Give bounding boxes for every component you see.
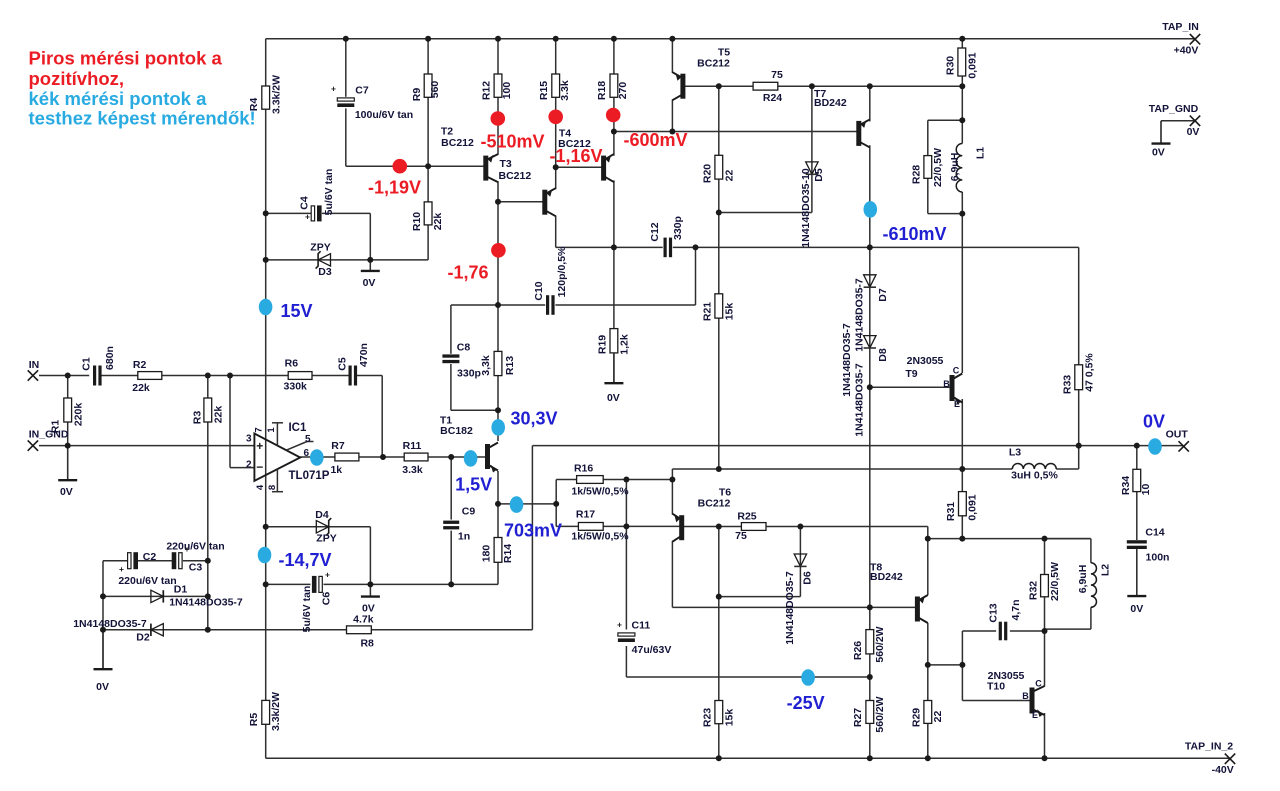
svg-text:3: 3	[246, 434, 252, 445]
svg-text:R23: R23	[702, 708, 714, 727]
svg-text:330k: 330k	[284, 381, 308, 393]
svg-text:BC182: BC182	[440, 425, 473, 437]
svg-text:R33: R33	[1062, 375, 1074, 394]
svg-text:R8: R8	[360, 638, 374, 650]
svg-text:C4: C4	[299, 196, 311, 210]
svg-text:+: +	[119, 564, 124, 574]
svg-text:C11: C11	[632, 620, 651, 632]
svg-text:703mV: 703mV	[504, 521, 562, 541]
svg-text:C14: C14	[1145, 527, 1164, 539]
svg-text:IN_GND: IN_GND	[29, 429, 69, 441]
svg-text:1N4148DO35-10: 1N4148DO35-10	[800, 168, 812, 248]
svg-text:BD242: BD242	[870, 571, 903, 583]
svg-text:D5: D5	[813, 168, 825, 182]
svg-text:-600mV: -600mV	[623, 130, 687, 150]
svg-text:TL071P: TL071P	[289, 470, 330, 482]
svg-text:4,7n: 4,7n	[1010, 599, 1022, 620]
svg-text:L2: L2	[1100, 564, 1112, 576]
svg-text:8: 8	[267, 485, 278, 490]
svg-text:0V: 0V	[96, 681, 109, 693]
svg-text:560/2W: 560/2W	[874, 626, 886, 662]
svg-text:Piros mérési pontok a: Piros mérési pontok a	[29, 48, 223, 69]
svg-text:-25V: -25V	[787, 693, 825, 713]
svg-text:270: 270	[617, 82, 629, 100]
svg-text:560/2W: 560/2W	[874, 696, 886, 732]
svg-text:0V: 0V	[607, 392, 620, 404]
svg-text:C5: C5	[337, 357, 349, 371]
svg-text:IC1: IC1	[288, 422, 307, 434]
svg-text:180: 180	[481, 545, 493, 563]
svg-text:1N4148DO35-7: 1N4148DO35-7	[854, 363, 866, 437]
svg-text:R27: R27	[852, 708, 864, 727]
svg-text:TAP_IN: TAP_IN	[1162, 21, 1199, 33]
svg-text:R21: R21	[702, 302, 714, 321]
svg-text:0V: 0V	[1152, 147, 1165, 159]
svg-text:R7: R7	[331, 440, 345, 452]
svg-text:D8: D8	[877, 348, 889, 362]
svg-text:R17: R17	[576, 508, 595, 520]
svg-text:-40V: -40V	[1212, 764, 1234, 776]
svg-text:1,5V: 1,5V	[455, 475, 492, 495]
svg-text:-14,7V: -14,7V	[278, 550, 331, 570]
svg-text:R5: R5	[248, 713, 260, 727]
svg-text:R30: R30	[945, 56, 957, 75]
svg-text:2: 2	[246, 460, 252, 471]
svg-text:−: −	[256, 460, 263, 474]
svg-text:0V: 0V	[60, 486, 73, 498]
svg-text:R28: R28	[911, 165, 923, 184]
svg-text:6,9uH: 6,9uH	[949, 153, 961, 182]
svg-text:-1,16V: -1,16V	[549, 146, 602, 166]
svg-text:6: 6	[304, 448, 310, 459]
svg-text:D6: D6	[802, 571, 814, 585]
svg-text:kék mérési pontok a: kék mérési pontok a	[29, 88, 208, 109]
svg-text:3,3k: 3,3k	[480, 355, 492, 376]
svg-text:1N4148DO35-7: 1N4148DO35-7	[73, 618, 147, 630]
svg-text:BC212: BC212	[499, 170, 532, 182]
svg-text:C: C	[1035, 679, 1042, 689]
svg-text:22k: 22k	[432, 213, 444, 231]
svg-text:22k: 22k	[132, 382, 150, 394]
svg-text:0V: 0V	[1143, 412, 1165, 432]
svg-text:1N4148DO35-7: 1N4148DO35-7	[784, 571, 796, 645]
svg-text:22: 22	[724, 170, 736, 182]
svg-text:5u/6V tan: 5u/6V tan	[323, 169, 335, 216]
svg-text:0V: 0V	[362, 603, 375, 615]
svg-text:T3: T3	[500, 158, 512, 170]
svg-text:C13: C13	[988, 603, 1000, 622]
svg-text:R18: R18	[596, 81, 608, 100]
svg-text:R24: R24	[763, 92, 782, 104]
svg-text:ZPY: ZPY	[316, 533, 336, 545]
svg-text:1,2k: 1,2k	[619, 334, 631, 355]
svg-text:-1,19V: -1,19V	[368, 178, 421, 198]
svg-text:BC212: BC212	[697, 58, 730, 70]
svg-text:L1: L1	[975, 147, 987, 159]
svg-text:100u/6V tan: 100u/6V tan	[355, 109, 413, 121]
svg-text:T10: T10	[987, 681, 1005, 693]
svg-text:T2: T2	[441, 126, 453, 138]
svg-text:1: 1	[266, 427, 277, 433]
svg-text:R10: R10	[411, 212, 423, 231]
svg-text:1N4148DO35-7: 1N4148DO35-7	[841, 323, 853, 397]
svg-text:C1: C1	[81, 357, 93, 371]
svg-text:L3: L3	[1009, 447, 1021, 459]
svg-text:3uH 0,5%: 3uH 0,5%	[1011, 470, 1058, 482]
svg-text:C12: C12	[649, 222, 661, 241]
svg-text:330p: 330p	[672, 216, 684, 240]
svg-text:6,9uH: 6,9uH	[1077, 565, 1089, 594]
svg-text:470n: 470n	[358, 343, 370, 367]
svg-text:D1: D1	[174, 584, 188, 596]
svg-text:22/0,5W: 22/0,5W	[1049, 562, 1061, 601]
svg-text:testhez képest mérendők!: testhez képest mérendők!	[29, 108, 256, 129]
svg-text:22: 22	[932, 711, 944, 723]
svg-text:C3: C3	[189, 562, 203, 574]
svg-text:220u/6V tan: 220u/6V tan	[166, 541, 224, 553]
svg-text:-1,76: -1,76	[447, 263, 488, 283]
svg-text:ZPY: ZPY	[310, 242, 330, 254]
svg-text:R11: R11	[403, 440, 422, 452]
svg-text:220k: 220k	[73, 403, 85, 427]
svg-text:7: 7	[254, 427, 265, 432]
svg-text:+: +	[305, 212, 310, 222]
svg-text:R9: R9	[411, 88, 423, 102]
svg-text:15k: 15k	[724, 709, 736, 727]
svg-text:OUT: OUT	[1166, 428, 1189, 440]
svg-text:B: B	[943, 379, 950, 389]
svg-text:T9: T9	[905, 368, 917, 380]
svg-text:+: +	[331, 84, 336, 94]
svg-text:3.3k/2W: 3.3k/2W	[270, 692, 282, 731]
svg-text:220u/6V tan: 220u/6V tan	[118, 575, 176, 587]
svg-text:BC212: BC212	[441, 137, 474, 149]
svg-text:IN: IN	[29, 359, 40, 371]
svg-text:2N3055: 2N3055	[907, 355, 944, 367]
svg-text:R13: R13	[504, 356, 516, 375]
svg-text:R34: R34	[1120, 476, 1132, 495]
svg-text:4.7k: 4.7k	[353, 614, 374, 626]
svg-text:100n: 100n	[1146, 552, 1170, 564]
svg-text:C6: C6	[321, 592, 333, 606]
svg-text:1N4148DO35-7: 1N4148DO35-7	[854, 278, 866, 352]
svg-text:330p: 330p	[457, 368, 481, 380]
svg-text:D4: D4	[315, 509, 329, 521]
svg-text:R3: R3	[192, 411, 204, 425]
svg-text:30,3V: 30,3V	[510, 409, 557, 429]
svg-text:R12: R12	[481, 81, 493, 100]
svg-text:0,091: 0,091	[967, 52, 979, 78]
svg-text:560: 560	[429, 81, 441, 99]
svg-text:47 0,5%: 47 0,5%	[1084, 353, 1096, 392]
svg-text:B: B	[1022, 691, 1029, 701]
svg-text:BC212: BC212	[698, 498, 731, 510]
svg-text:22/0,5W: 22/0,5W	[932, 148, 944, 187]
svg-text:TAP_GND: TAP_GND	[1149, 103, 1199, 115]
svg-text:100: 100	[501, 82, 513, 100]
svg-text:3.3k: 3.3k	[402, 464, 423, 476]
svg-text:22k: 22k	[213, 406, 225, 424]
svg-text:R31: R31	[945, 502, 957, 521]
svg-text:E: E	[954, 399, 960, 409]
svg-text:1k/5W/0,5%: 1k/5W/0,5%	[571, 531, 629, 543]
svg-text:R2: R2	[133, 359, 147, 371]
svg-text:R16: R16	[574, 463, 593, 475]
svg-text:R19: R19	[597, 335, 609, 354]
svg-text:R15: R15	[538, 81, 550, 100]
svg-text:+: +	[325, 570, 330, 580]
svg-text:120p/0,5%: 120p/0,5%	[556, 246, 568, 297]
svg-text:-610mV: -610mV	[882, 224, 946, 244]
svg-text:C2: C2	[143, 551, 157, 563]
svg-text:0V: 0V	[363, 277, 376, 289]
svg-text:10: 10	[1140, 484, 1152, 496]
svg-text:3.3k/2W: 3.3k/2W	[271, 75, 283, 114]
svg-text:C7: C7	[355, 85, 369, 97]
svg-text:TAP_IN_2: TAP_IN_2	[1185, 741, 1233, 753]
svg-text:1k/5W/0,5%: 1k/5W/0,5%	[571, 486, 629, 498]
svg-text:15V: 15V	[280, 301, 312, 321]
svg-text:-510mV: -510mV	[480, 132, 544, 152]
svg-text:R6: R6	[285, 358, 299, 370]
svg-text:+: +	[185, 544, 190, 554]
svg-text:3.3k: 3.3k	[559, 80, 571, 101]
svg-text:+40V: +40V	[1174, 45, 1199, 57]
svg-text:R26: R26	[852, 641, 864, 660]
svg-text:75: 75	[771, 69, 783, 81]
svg-text:0V: 0V	[1187, 126, 1200, 138]
svg-text:1n: 1n	[458, 531, 470, 543]
svg-text:+: +	[617, 620, 622, 630]
svg-text:D2: D2	[136, 632, 150, 644]
svg-text:1k: 1k	[330, 464, 342, 476]
svg-text:C8: C8	[457, 342, 471, 354]
svg-text:E: E	[1032, 710, 1038, 720]
svg-text:R14: R14	[502, 544, 514, 563]
svg-text:5u/6V tan: 5u/6V tan	[301, 586, 313, 633]
svg-text:+: +	[256, 439, 263, 453]
svg-text:680n: 680n	[104, 346, 116, 370]
svg-text:75: 75	[735, 530, 747, 542]
svg-text:R29: R29	[911, 708, 923, 727]
svg-text:BD242: BD242	[814, 97, 847, 109]
svg-text:R32: R32	[1028, 581, 1040, 600]
svg-text:pozitívhoz,: pozitívhoz,	[29, 68, 125, 89]
svg-text:0V: 0V	[1130, 603, 1143, 615]
svg-text:C10: C10	[533, 281, 545, 300]
svg-text:D3: D3	[318, 266, 332, 278]
svg-text:D7: D7	[877, 288, 889, 302]
svg-text:R25: R25	[737, 511, 756, 523]
svg-text:15k: 15k	[724, 303, 736, 321]
svg-text:4: 4	[255, 484, 266, 490]
svg-text:5: 5	[305, 434, 311, 445]
svg-text:0,091: 0,091	[967, 494, 979, 520]
svg-text:C9: C9	[462, 506, 476, 518]
svg-text:47u/63V: 47u/63V	[632, 644, 672, 656]
svg-text:R20: R20	[702, 164, 714, 183]
svg-text:C: C	[953, 366, 960, 376]
